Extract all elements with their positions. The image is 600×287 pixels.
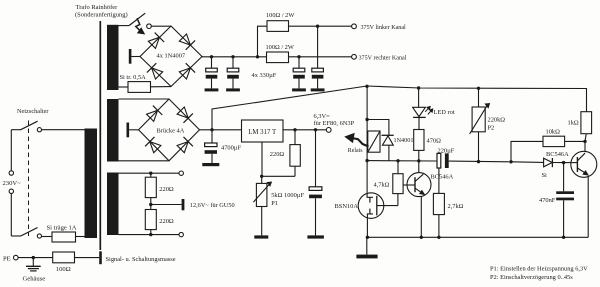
terminal PE (14, 255, 19, 260)
switch S1b blade (21, 228, 38, 237)
svg-text:Trafo Rainhöfer: Trafo Rainhöfer (76, 4, 119, 11)
resistor 1k (581, 112, 592, 134)
wire mains left top (11, 129, 21, 131)
switch S1a contact (37, 128, 41, 132)
wire LM317 output (283, 129, 326, 131)
node 470nF top (562, 161, 565, 164)
svg-text:PE: PE (3, 255, 11, 262)
terminal heater top (179, 171, 183, 175)
capacitor 1000uF (315, 130, 317, 187)
svg-text:6,3V=: 6,3V= (314, 113, 331, 120)
svg-text:Si: Si (542, 172, 548, 179)
capacitor 330uF #4 with ground (317, 26, 319, 68)
terminal 6,3V (326, 127, 331, 132)
wire branch up to upper resistor (258, 26, 268, 57)
thermal breaker trip arrow (136, 18, 141, 31)
wire mains left bottom (11, 235, 21, 237)
terminal 375V rechter (352, 54, 357, 59)
capacitor 330uF #1 with ground (211, 57, 213, 68)
thermal breaker blade (129, 13, 145, 25)
node P2 bottom (477, 160, 480, 163)
svg-text:P2: P2 (488, 124, 495, 131)
node heater top (149, 172, 152, 175)
svg-text:BSN10A: BSN10A (335, 203, 359, 210)
node 4.7k top (396, 159, 399, 162)
svg-text:100Ω / 2W: 100Ω / 2W (266, 44, 294, 51)
wire diode to base node (552, 162, 563, 164)
heater mid bar (182, 199, 185, 210)
relay coil K1 (368, 131, 380, 152)
node collector Q2 (583, 140, 586, 143)
svg-text:5kΩ: 5kΩ (271, 192, 282, 199)
resistor 2,7k (438, 168, 440, 193)
transformer secondary winding for LM317 (107, 99, 119, 162)
node LED top (417, 86, 420, 89)
wire breaker to bridge (151, 25, 171, 27)
svg-text:100Ω / 2W: 100Ω / 2W (266, 12, 294, 19)
wire raw DC diagonal to delay rail (212, 86, 367, 130)
wire bridge2 out (200, 129, 242, 131)
terminal 230V lower (9, 189, 13, 193)
wire winding2 to bridge bottom (119, 160, 170, 162)
transformer core (99, 21, 101, 250)
potentiometer P1 5k (261, 176, 263, 183)
potentiometer P2 220k (478, 88, 480, 107)
svg-text:BC546A: BC546A (431, 173, 454, 180)
capacitor 220uF (437, 153, 441, 168)
svg-text:Signal- u. Schaltungsmasse: Signal- u. Schaltungsmasse (106, 256, 176, 263)
node raw DC (210, 128, 213, 131)
wire 10k to collector node (565, 140, 585, 142)
node rail cap2 (231, 55, 234, 58)
signal ground bar (99, 251, 102, 264)
svg-text:10kΩ: 10kΩ (546, 129, 561, 136)
svg-text:BC546A: BC546A (546, 151, 569, 158)
fuse F2 0,5A (119, 86, 129, 88)
wire 470R to node (418, 150, 420, 159)
diode Si (544, 158, 553, 167)
switch S1a blade (21, 121, 38, 130)
node 1000uF top (314, 128, 317, 131)
wire LM317 adj (261, 142, 263, 176)
node Q1 collector (417, 159, 420, 162)
svg-text:Si tr. 0,5A: Si tr. 0,5A (120, 74, 147, 81)
bridge B1 diamond (140, 26, 202, 87)
breaker contact (147, 24, 152, 29)
node heater mid (150, 198, 152, 205)
node PE junction (32, 256, 35, 259)
transistor Q2 BC546A (571, 151, 597, 177)
relay arrow (352, 138, 369, 147)
svg-text:1N4001: 1N4001 (394, 137, 414, 144)
wire heater bottom (119, 234, 180, 236)
bridge B2 diode bottom-right (177, 142, 188, 153)
svg-text:375V linker Kanal: 375V linker Kanal (361, 25, 407, 31)
LED D rot (413, 107, 426, 116)
svg-text:Gehäuse: Gehäuse (23, 276, 46, 283)
transistor Q1 BC546A (407, 173, 431, 197)
node relay top (365, 118, 368, 121)
bridge B1 diode bottom-left (152, 68, 163, 79)
svg-text:1kΩ: 1kΩ (568, 119, 579, 126)
svg-text:470nF: 470nF (539, 197, 556, 204)
node RC split (509, 160, 512, 163)
wire cap to P2 node (449, 160, 511, 163)
transformer secondary winding 375V (107, 25, 119, 90)
node rail Q1 emitter (420, 236, 423, 239)
svg-text:Netzschalter: Netzschalter (17, 108, 49, 115)
bridge B1 diode top-right (179, 34, 190, 45)
svg-text:P1: P1 (271, 200, 278, 207)
svg-text:220Ω: 220Ω (159, 186, 174, 193)
svg-text:1000µF: 1000µF (284, 192, 304, 199)
svg-text:Relais: Relais (348, 148, 363, 154)
bridge B2 diode bottom-left (150, 142, 161, 153)
bridge B1 diode bottom-right (179, 68, 190, 79)
wire split to diode (511, 161, 544, 164)
svg-text:4700µF: 4700µF (221, 144, 241, 151)
node relay bottom (365, 159, 368, 162)
wire P1 to ground (261, 207, 263, 236)
wire resistor to mass bar (75, 257, 100, 259)
bridge B1 minus mass bar (129, 49, 132, 64)
node rail mosfet (366, 236, 369, 239)
capacitor 470nF (563, 163, 565, 192)
wire winding to breaker (119, 25, 130, 27)
svg-text:P1: Einstellen der Heizspannun: P1: Einstellen der Heizspannung 6,3V (490, 266, 588, 273)
svg-text:(Sonderanfertigung): (Sonderanfertigung) (75, 12, 128, 19)
svg-text:LED rot: LED rot (434, 109, 455, 116)
regulator LM317 (242, 120, 284, 142)
LED arrows (425, 108, 428, 112)
resistor 220R heater lower (150, 205, 152, 210)
svg-text:4x 1N4007: 4x 1N4007 (157, 52, 186, 59)
wire node to Q2 base (564, 162, 578, 164)
wire 375V rail (202, 56, 267, 58)
svg-text:P2: Einschaltverzögerung 0..45: P2: Einschaltverzögerung 0..45s (490, 274, 573, 281)
svg-text:2,7kΩ: 2,7kΩ (448, 203, 464, 210)
resistor 220R feedback (294, 130, 296, 145)
wire heater top (119, 172, 180, 174)
terminal 375V linker (352, 24, 357, 29)
fuse F1 1A (42, 236, 53, 238)
resistor 220R heater upper (150, 173, 152, 177)
svg-text:für EF80, 6N3P: für EF80, 6N3P (314, 120, 355, 127)
node 220R top (293, 128, 296, 131)
svg-text:220kΩ: 220kΩ (488, 117, 506, 124)
resistor 100R 2W lower (267, 52, 289, 63)
wire S1a to primary (42, 129, 85, 131)
svg-text:Si träge 1A: Si träge 1A (47, 225, 77, 232)
wire relay bottom node (367, 160, 437, 162)
node rail 2,7k (437, 236, 440, 239)
wire delay top rail (367, 86, 587, 112)
capacitor 330uF #3 with ground (298, 57, 300, 68)
ground bar P1 (254, 235, 268, 238)
svg-text:220µF: 220µF (438, 148, 455, 155)
svg-text:Brücke 4A: Brücke 4A (157, 127, 185, 134)
ground bar main (366, 237, 368, 254)
svg-text:230V~: 230V~ (3, 180, 22, 187)
capacitor 4700uF (211, 130, 213, 143)
transformer secondary winding 12.6V heater (107, 173, 119, 236)
wire PE to resistor (18, 257, 53, 259)
bridge B2 diamond (139, 99, 200, 161)
node P2 top (477, 87, 480, 90)
transistor T1 BSN10A (358, 193, 384, 219)
resistor 4,7k gate (397, 161, 399, 174)
wire winding2 to bridge top (119, 98, 170, 100)
node upper cap4 (316, 25, 319, 28)
ground bar 1000uF (307, 235, 324, 238)
svg-text:LM 317 T: LM 317 T (248, 129, 277, 136)
wire 230V left vertical (10, 130, 12, 171)
diode 1N4001 flyback (367, 120, 389, 136)
svg-text:4x 330µF: 4x 330µF (252, 72, 277, 79)
node lower cap3 (297, 55, 300, 58)
svg-text:220Ω: 220Ω (159, 218, 174, 225)
wire LED drop (418, 88, 420, 107)
node rail cap1 (210, 55, 213, 58)
wire RC up to 10k (511, 141, 543, 161)
svg-text:220Ω: 220Ω (270, 151, 285, 158)
svg-text:375V rechter Kanal: 375V rechter Kanal (359, 56, 407, 62)
node diagonal-rail (365, 85, 368, 88)
capacitor 330uF #2 with ground (232, 57, 234, 68)
svg-text:470Ω: 470Ω (427, 137, 442, 144)
bridge B2 diode top-left (147, 110, 158, 121)
node heater bottom (149, 233, 152, 236)
wire bottom rail (367, 236, 589, 238)
bridge B2 minus mass bar (127, 123, 130, 138)
resistor 100R chassis (53, 252, 75, 263)
terminal 230V upper (9, 171, 13, 175)
resistor 470R (418, 117, 420, 129)
resistor 100R 2W upper (267, 21, 289, 32)
svg-text:12,6V~ für GU50: 12,6V~ für GU50 (190, 202, 235, 209)
terminal heater bottom (179, 232, 183, 236)
transformer primary winding (85, 129, 98, 239)
wire lower to right terminal (289, 56, 352, 58)
switch coupling dashed (28, 121, 30, 237)
svg-text:4,7kΩ: 4,7kΩ (374, 182, 390, 189)
bridge B1 diode top-left (148, 37, 159, 48)
svg-text:100Ω: 100Ω (56, 266, 71, 273)
bridge B2 diode top-right (177, 107, 188, 118)
switch S1b contact (37, 234, 41, 238)
wire upper to left terminal (289, 25, 352, 27)
node 470nF bottom (562, 236, 565, 239)
wire relay rail vertical (366, 86, 368, 193)
resistor 10k (543, 136, 565, 146)
earth ground Gehaeuse (32, 258, 34, 266)
wire 230V lower vertical (10, 194, 12, 237)
wire heater mid to bar (151, 204, 182, 206)
node rail branch (256, 55, 259, 58)
